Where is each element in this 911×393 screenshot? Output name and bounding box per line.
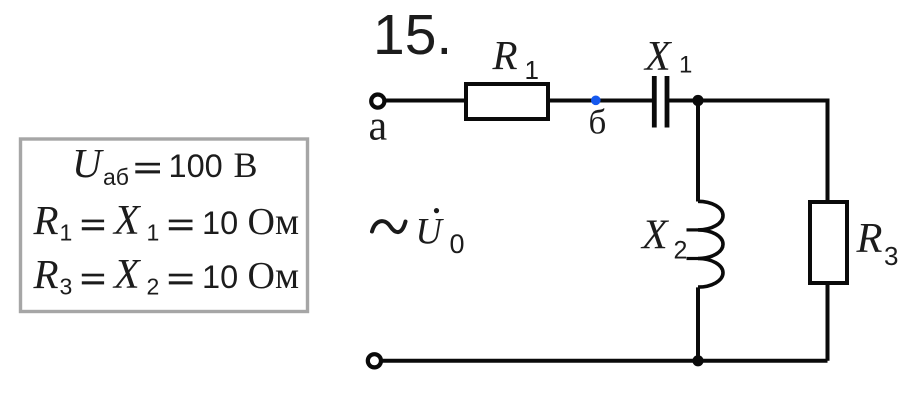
svg-text:X: X (643, 34, 673, 80)
resistor R3 (810, 202, 847, 283)
svg-text:X: X (640, 213, 670, 259)
wire R1 to X1 (548, 99, 652, 103)
svg-text:2: 2 (147, 274, 160, 300)
svg-text:б: б (589, 103, 607, 142)
svg-text:1: 1 (525, 55, 539, 85)
svg-text:В: В (234, 145, 258, 185)
wire a to R1 (384, 99, 466, 103)
terminal (bottom left) (368, 354, 381, 367)
wire junction to top-right corner and down to R3 (698, 101, 828, 203)
svg-text:R: R (33, 251, 59, 297)
svg-text:1: 1 (679, 52, 692, 79)
wire junction down to X2 (696, 101, 700, 202)
svg-text:10: 10 (202, 259, 238, 295)
value label U_ab = 100 B (line 1) (72, 140, 258, 190)
svg-text:1: 1 (60, 220, 73, 246)
svg-text:U: U (72, 140, 104, 186)
capacitor X1 (654, 76, 667, 128)
inductor X2 (687, 201, 724, 287)
svg-text:1: 1 (147, 220, 160, 246)
svg-text:аб: аб (103, 164, 129, 190)
svg-text:100: 100 (169, 148, 223, 184)
svg-text:0: 0 (450, 229, 465, 259)
svg-text:X: X (112, 198, 142, 244)
svg-text:3: 3 (884, 241, 898, 271)
svg-text:а: а (369, 104, 388, 150)
svg-text:R: R (33, 197, 59, 243)
svg-text:X: X (112, 252, 142, 298)
svg-text:R: R (856, 215, 883, 262)
svg-text:Ом: Ом (248, 255, 300, 297)
wire X2 to bottom junction (696, 287, 700, 361)
value label R3 = X2 = 10 Om (line 3) (33, 251, 300, 300)
svg-text:2: 2 (674, 237, 688, 265)
svg-text:Ом: Ом (248, 201, 300, 243)
source label ~ U0 (372, 208, 465, 259)
bottom junction node (692, 355, 703, 366)
svg-text:R: R (492, 32, 518, 78)
parameter box (21, 139, 308, 312)
resistor R1 (466, 84, 548, 119)
node б (blue dot) (591, 96, 601, 106)
top junction node (692, 95, 703, 106)
svg-text:U: U (416, 211, 445, 252)
terminal a (top left) (371, 95, 384, 108)
svg-text:15.: 15. (373, 3, 452, 67)
value label R1 = X1 = 10 Om (line 2) (33, 197, 300, 246)
svg-text:3: 3 (60, 274, 73, 300)
svg-text:10: 10 (202, 205, 238, 241)
wire X1 to top junction (669, 99, 700, 103)
wire R3 to bottom wire (826, 283, 830, 361)
bottom wire (381, 359, 828, 363)
